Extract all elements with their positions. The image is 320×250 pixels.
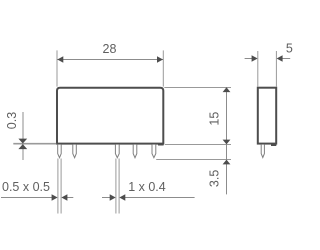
svg-text:0.3: 0.3 bbox=[5, 112, 19, 129]
dimension 28: dimension line bbox=[57, 59, 163, 61]
dimension 15: bottom arrowhead bbox=[223, 140, 231, 145]
dimension 0.5 x 0.5: right arrowhead bbox=[61, 194, 67, 201]
pin 3 front view bbox=[115, 145, 119, 158]
svg-text:0.5 x 0.5: 0.5 x 0.5 bbox=[2, 180, 50, 194]
relay body front view bbox=[57, 88, 163, 144]
dimension 0.3: dimension line bbox=[22, 112, 24, 160]
dimension 15: top arrowhead bbox=[223, 87, 231, 92]
relay body side view bbox=[258, 88, 276, 144]
pin 4 front view bbox=[133, 145, 137, 158]
mounting foot front view bbox=[158, 144, 164, 146]
dimension 28: extension line left bbox=[56, 50, 58, 86]
pin 1 width extension lines bbox=[57, 159, 59, 214]
dimension 3.5: arrowhead from below bbox=[223, 160, 231, 165]
dimension 28: left arrowhead bbox=[57, 56, 63, 63]
pin 5 front view bbox=[152, 145, 156, 158]
pin 1 front view bbox=[58, 145, 62, 158]
svg-text:1 x 0.4: 1 x 0.4 bbox=[128, 180, 166, 194]
pin side view bbox=[261, 145, 264, 158]
dimension 1 x 0.4: left arrowhead bbox=[110, 194, 116, 201]
svg-text:3.5: 3.5 bbox=[207, 170, 221, 187]
svg-text:28: 28 bbox=[103, 42, 117, 56]
svg-text:5: 5 bbox=[286, 42, 293, 56]
dimension 0.3: upper arrowhead bbox=[18, 139, 27, 144]
dimension 28: extension line right bbox=[162, 50, 164, 86]
pin 3 width extension lines bbox=[115, 159, 117, 214]
dimension 0.3: seating plane line bbox=[13, 143, 56, 145]
dimension 3.5: extension line bottom bbox=[156, 159, 231, 161]
svg-text:15: 15 bbox=[208, 112, 222, 126]
dimension 5: extension line right bbox=[275, 51, 277, 87]
dimension 15: extension line top bbox=[164, 87, 231, 89]
dimension 28: right arrowhead bbox=[157, 56, 163, 63]
dimension 15: extension line bottom bbox=[165, 144, 231, 146]
dimension 1 x 0.4: dimension line with tails bbox=[102, 197, 110, 199]
pin 2 front view bbox=[73, 145, 77, 158]
dimension 0.3: lower arrowhead bbox=[18, 144, 27, 149]
mounting foot side view bbox=[271, 144, 276, 146]
dimension 5: right tail and arrowhead bbox=[282, 58, 290, 60]
dimension 0.5 x 0.5: left arrowhead bbox=[52, 194, 58, 201]
dimension 1 x 0.4: right arrowhead bbox=[119, 194, 125, 201]
dimension 5: extension line left bbox=[257, 51, 259, 87]
dimension 0.5 x 0.5: dimension line with tails bbox=[1, 197, 52, 199]
dimension 15 / 3.5: dimension line bbox=[226, 88, 228, 195]
dimension 5: left tail and arrowhead bbox=[245, 58, 253, 60]
